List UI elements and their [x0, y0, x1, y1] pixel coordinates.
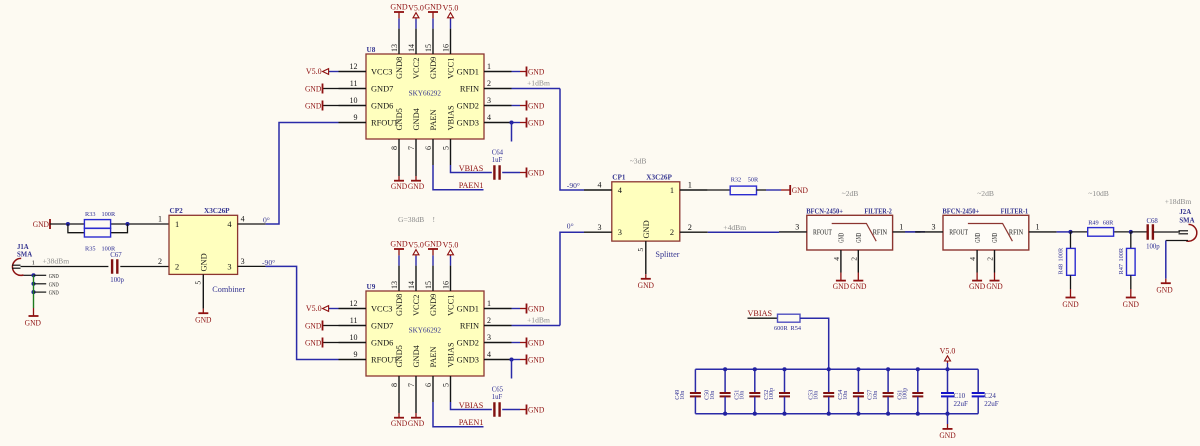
- power port GND at C64: [520, 172, 527, 174]
- capacitor C68: [1146, 224, 1148, 240]
- svg-text:~3dB: ~3dB: [630, 156, 647, 165]
- capacitor C49: [694, 369, 696, 392]
- resistor R33: [84, 220, 110, 229]
- wire CP2 pin4 to U8 RFOUT: [266, 123, 339, 225]
- wire FILTER-2 to FILTER-1: [905, 231, 925, 233]
- wire U8 RFIN route to CP1 pin4: [560, 89, 584, 191]
- wire R32 to GND: [757, 189, 767, 191]
- svg-text:GND: GND: [528, 67, 544, 76]
- svg-text:10: 10: [350, 96, 358, 105]
- svg-text:600R: 600R: [774, 325, 788, 332]
- capacitor C52: [784, 369, 786, 392]
- wire VBIAS to R54: [748, 317, 778, 319]
- junction C54 top rail: [856, 367, 860, 371]
- power port GND at pin4 of U9: [512, 359, 521, 361]
- svg-text:PAEN1: PAEN1: [459, 418, 484, 427]
- power port GND at pin7 of U8: [415, 165, 417, 176]
- svg-text:GND: GND: [305, 84, 321, 93]
- capacitor C50: [724, 369, 726, 392]
- connector J1A center pin lines: [12, 264, 21, 266]
- power port V5.0 at pin12 of U8: [329, 71, 339, 73]
- pin 2 of FILTER-1: [994, 250, 996, 273]
- svg-text:3: 3: [795, 223, 799, 232]
- svg-text:GND: GND: [528, 101, 544, 110]
- svg-text:CP2: CP2: [170, 207, 184, 215]
- svg-text:1: 1: [670, 186, 674, 195]
- pin 10 GND6 of U8: [339, 105, 367, 107]
- junction C61 bottom rail: [916, 412, 920, 416]
- power port V5.0 at pin12 of U9: [329, 308, 339, 310]
- capacitor C54: [857, 369, 859, 392]
- pin GND of J1A row2: [34, 283, 47, 285]
- svg-text:10n: 10n: [680, 391, 686, 400]
- svg-text:3: 3: [487, 96, 491, 105]
- pin 4 GND3 of U8: [484, 122, 512, 124]
- junction at pin4 of U9: [509, 357, 513, 361]
- filter FILTER-2 group: [779, 208, 920, 292]
- wire VBIAS from pin5 of U9: [451, 402, 492, 410]
- resistor R47 (shunt): [1130, 232, 1132, 249]
- pin 2 RFIN of U9: [484, 325, 512, 327]
- svg-text:8: 8: [390, 383, 399, 387]
- svg-text:GND: GND: [638, 281, 654, 290]
- power port GND below CP1: [645, 274, 647, 279]
- svg-text:GND: GND: [528, 405, 544, 414]
- svg-text:GND: GND: [1123, 300, 1139, 309]
- svg-text:R49: R49: [1088, 219, 1099, 226]
- svg-text:J1A: J1A: [17, 244, 29, 251]
- pin 5 VBIAS of U8: [450, 139, 452, 165]
- svg-text:12: 12: [350, 299, 358, 308]
- wire J1A signal output +38dBm: [21, 266, 109, 268]
- svg-text:GND: GND: [49, 273, 59, 280]
- capacitor C61: [917, 369, 919, 392]
- pin 15 GND9 of U9: [432, 266, 434, 291]
- connector J2A shield stub: [1166, 240, 1188, 242]
- connector J2A SMA arc: [1186, 224, 1197, 241]
- power port V5.0 at pin14 of U9: [415, 256, 417, 266]
- connector J1A shield stub: [24, 274, 34, 276]
- wire C65 to GND: [502, 409, 520, 411]
- svg-text:GND: GND: [792, 186, 808, 195]
- svg-text:GND: GND: [855, 233, 863, 243]
- wire R54 to capacitor bank: [800, 318, 829, 369]
- svg-text:1uF: 1uF: [492, 157, 503, 164]
- junction C53 bottom rail: [827, 412, 831, 416]
- pin 3 of FILTER-1: [915, 231, 943, 233]
- svg-text:3: 3: [618, 228, 622, 237]
- wire top rail of capacitor bank: [695, 368, 978, 370]
- pin 4 of FILTER-2: [840, 250, 842, 273]
- svg-text:GND: GND: [974, 233, 982, 243]
- wire GND bar to CP2 pin 1: [50, 223, 169, 225]
- wire RFIN of U8: [512, 88, 561, 90]
- resistor R35: [84, 228, 110, 237]
- junction left of R33: [66, 222, 70, 226]
- svg-text:100R: 100R: [1058, 247, 1065, 261]
- pin 8 GND5 of U9: [398, 376, 400, 402]
- svg-text:14: 14: [407, 44, 416, 52]
- wire C68 to J2A: [1154, 231, 1181, 233]
- pin 11 GND7 of U9: [339, 325, 367, 327]
- svg-text:100R: 100R: [1118, 247, 1125, 261]
- svg-text:2: 2: [487, 79, 491, 88]
- svg-text:VBIAS: VBIAS: [459, 401, 484, 410]
- junction C54 bottom rail: [856, 412, 860, 416]
- power port GND at pin13 of U8: [398, 18, 400, 28]
- pin 4 GND3 of U9: [484, 359, 512, 361]
- pin 14 VCC2 of U9: [415, 266, 417, 291]
- svg-text:GND5: GND5: [395, 345, 404, 367]
- wire PAEN1 from pin6 of U9: [433, 402, 484, 427]
- svg-text:4: 4: [968, 257, 977, 261]
- svg-text:R33: R33: [85, 211, 96, 218]
- svg-text:C68: C68: [1147, 218, 1159, 225]
- svg-text:GND: GND: [390, 3, 408, 12]
- svg-text:GND2: GND2: [457, 339, 479, 348]
- svg-text:R48: R48: [1058, 264, 1065, 275]
- svg-text:GND: GND: [390, 240, 408, 249]
- svg-text:10n: 10n: [873, 391, 879, 400]
- filter response curve of FILTER-1: [968, 224, 1013, 242]
- svg-text:GND: GND: [408, 419, 424, 428]
- svg-text:GND: GND: [305, 321, 321, 330]
- svg-text:VCC1: VCC1: [446, 58, 455, 79]
- wire CP1 pin2 to FILTER-2 (+4dBm): [708, 231, 779, 233]
- svg-text:7: 7: [407, 383, 416, 387]
- svg-text:GND: GND: [195, 316, 211, 325]
- svg-text:RFIN: RFIN: [460, 322, 479, 331]
- junction right of R33: [125, 222, 129, 226]
- svg-text:15: 15: [424, 44, 433, 52]
- svg-text:5: 5: [442, 383, 451, 387]
- svg-text:PAEN: PAEN: [429, 346, 438, 367]
- power port GND at pin4 of U8: [512, 122, 521, 124]
- svg-text:VCC2: VCC2: [412, 295, 421, 316]
- junction C52 bottom rail: [782, 412, 786, 416]
- svg-text:11: 11: [350, 79, 358, 88]
- pin 12 VCC3 of U8: [339, 71, 367, 73]
- svg-text:VCC3: VCC3: [371, 305, 392, 314]
- svg-text:GND: GND: [986, 282, 1002, 291]
- power port GND at pin2 of FILTER-2: [857, 273, 859, 281]
- svg-text:Combiner: Combiner: [212, 285, 245, 294]
- svg-text:GND: GND: [528, 118, 544, 127]
- svg-text:FILTER-2: FILTER-2: [864, 208, 892, 216]
- power port GND at pin1 of U9: [512, 308, 521, 310]
- capacitor C57: [887, 369, 889, 392]
- svg-text:SMA: SMA: [17, 252, 32, 259]
- resistor R49: [1088, 228, 1114, 237]
- svg-text:GND1: GND1: [457, 68, 479, 77]
- svg-text:GND: GND: [991, 233, 999, 243]
- power port V5.0 at pin14 of U8: [415, 19, 417, 29]
- svg-text:1: 1: [487, 62, 491, 71]
- power port GND at pin4 of FILTER-2: [840, 273, 842, 281]
- svg-text:+18dBm: +18dBm: [1165, 197, 1192, 206]
- junction C51 top rail: [753, 367, 757, 371]
- resistor R32 wire from CP1 pin1: [708, 189, 730, 191]
- svg-text:1: 1: [175, 220, 179, 229]
- wire J1A shield to ground (green): [33, 275, 35, 308]
- svg-text:J2A: J2A: [1179, 209, 1191, 216]
- pin 1 GND1 of U8: [484, 71, 512, 73]
- svg-text:GND: GND: [49, 290, 59, 297]
- power port GND below J2A: [1165, 279, 1167, 284]
- pin 5 of CP1: [645, 241, 647, 274]
- pin GND of J1A row1: [34, 274, 47, 276]
- svg-text:GND: GND: [33, 220, 49, 229]
- svg-text:GND: GND: [838, 233, 846, 243]
- svg-text:RFIN: RFIN: [873, 229, 888, 237]
- svg-text:16: 16: [442, 44, 451, 52]
- svg-text:R35: R35: [85, 245, 96, 252]
- pin 9 RFOUT of U9: [339, 359, 367, 361]
- svg-text:2: 2: [688, 223, 692, 232]
- svg-text:4: 4: [487, 350, 491, 359]
- power port GND at pin4 of FILTER-1: [976, 273, 978, 281]
- junction at pin4 of U8: [509, 120, 513, 124]
- svg-text:U9: U9: [367, 283, 376, 291]
- svg-text:GND6: GND6: [371, 339, 393, 348]
- pin 9 RFOUT of U8: [339, 122, 367, 124]
- svg-text:GND: GND: [939, 431, 955, 440]
- power port GND at pin15 of U8: [432, 18, 434, 28]
- svg-text:4: 4: [241, 214, 245, 223]
- wire R35 to right junction: [111, 224, 128, 233]
- pin 3 GND2 of U8: [484, 105, 512, 107]
- pin 6 PAEN of U8: [432, 139, 434, 165]
- svg-text:10: 10: [350, 333, 358, 342]
- svg-text:GND: GND: [528, 168, 544, 177]
- power port GND at R32: [781, 189, 790, 191]
- svg-text:PAEN: PAEN: [429, 109, 438, 130]
- power port GND at R48: [1070, 289, 1072, 298]
- svg-text:2: 2: [158, 257, 162, 266]
- wire R47 to GND: [1130, 275, 1132, 289]
- junction C53 top rail: [827, 367, 831, 371]
- svg-text:GND8: GND8: [395, 57, 404, 79]
- svg-text:1uF: 1uF: [492, 394, 503, 401]
- svg-text:5: 5: [194, 281, 203, 285]
- svg-text:BFCN-2450+: BFCN-2450+: [806, 208, 843, 216]
- svg-text:1: 1: [158, 214, 162, 223]
- junction C61 top rail: [916, 367, 920, 371]
- power port GND at pin13 of U9: [398, 255, 400, 265]
- wire R48 to GND: [1070, 275, 1072, 289]
- power port GND at pin15 of U9: [432, 255, 434, 265]
- capacitor C53: [828, 369, 830, 392]
- junction C52 top rail: [782, 367, 786, 371]
- power port GND at R47: [1130, 289, 1132, 298]
- junction C10 bottom rail: [945, 412, 949, 416]
- svg-text:5: 5: [636, 248, 645, 252]
- svg-text:VBIAS: VBIAS: [459, 164, 484, 173]
- pin 16 VCC1 of U9: [450, 266, 452, 291]
- svg-text:G=38dB: G=38dB: [398, 215, 424, 224]
- pin 2 RFIN of U8: [484, 88, 512, 90]
- junction C50 bottom rail: [723, 412, 727, 416]
- svg-text:14: 14: [407, 281, 416, 289]
- svg-text:VCC2: VCC2: [412, 58, 421, 79]
- wire stub below pin4 of U8: [511, 123, 513, 142]
- svg-text:GND: GND: [408, 182, 424, 191]
- svg-text:V5.0: V5.0: [940, 347, 956, 356]
- svg-text:GND: GND: [305, 338, 321, 347]
- svg-text:GND9: GND9: [429, 294, 438, 316]
- svg-text:2: 2: [487, 316, 491, 325]
- svg-text:R54: R54: [791, 325, 802, 332]
- svg-text:V5.0: V5.0: [408, 3, 424, 12]
- svg-text:C65: C65: [492, 386, 504, 393]
- svg-text:GND: GND: [528, 355, 544, 364]
- svg-text:22uF: 22uF: [954, 400, 969, 408]
- svg-text:GND: GND: [424, 3, 442, 12]
- svg-text:+4dBm: +4dBm: [723, 223, 746, 232]
- pin 1 of CP1: [680, 189, 708, 191]
- wire across attenuator: [1071, 231, 1131, 233]
- junction C50 top rail: [723, 367, 727, 371]
- svg-text:GND7: GND7: [371, 322, 393, 331]
- svg-text:GND9: GND9: [429, 57, 438, 79]
- pin 15 GND9 of U8: [432, 29, 434, 54]
- svg-text:VBIAS: VBIAS: [446, 105, 455, 130]
- wire C64 to GND: [502, 172, 520, 174]
- junction C10 top rail: [945, 367, 949, 371]
- pin 3 of FILTER-2: [779, 231, 807, 233]
- svg-text:GND: GND: [850, 282, 866, 291]
- svg-text:GND: GND: [424, 240, 442, 249]
- svg-text:FILTER-1: FILTER-1: [1001, 208, 1029, 216]
- svg-text:5: 5: [442, 146, 451, 150]
- junction C51 bottom rail: [753, 412, 757, 416]
- svg-text:GND: GND: [528, 338, 544, 347]
- svg-text:GND3: GND3: [457, 119, 479, 128]
- svg-text:C64: C64: [492, 149, 504, 156]
- pin 12 VCC3 of U9: [339, 308, 367, 310]
- pin 1 of FILTER-1: [1029, 231, 1057, 233]
- wire C67 to CP2 pin 2: [120, 266, 169, 268]
- svg-text:10n: 10n: [813, 391, 819, 400]
- svg-text:VCC3: VCC3: [371, 68, 392, 77]
- wire RFIN of U9: [512, 325, 561, 327]
- svg-text:GND1: GND1: [457, 305, 479, 314]
- power port GND at C65: [520, 409, 527, 411]
- svg-text:X3C26P: X3C26P: [646, 174, 672, 182]
- svg-text:11: 11: [350, 316, 358, 325]
- junction at R47: [1129, 230, 1133, 234]
- pin 14 VCC2 of U8: [415, 29, 417, 54]
- svg-text:X3C26P: X3C26P: [204, 207, 230, 215]
- wire CP2 pin3 to U9 RFOUT: [266, 266, 339, 359]
- svg-text:3: 3: [241, 257, 245, 266]
- svg-text:GND: GND: [642, 220, 651, 238]
- pin 10 GND6 of U9: [339, 342, 367, 344]
- power port GND at pin11 of U8: [323, 88, 339, 90]
- svg-text:2: 2: [670, 228, 674, 237]
- svg-text:100p: 100p: [1146, 244, 1160, 251]
- svg-text:BFCN-2450+: BFCN-2450+: [942, 208, 979, 216]
- pin 2 of FILTER-2: [857, 250, 859, 273]
- svg-text:~2dB: ~2dB: [842, 189, 859, 198]
- svg-text:1: 1: [688, 181, 692, 190]
- svg-text:SKY66292: SKY66292: [409, 326, 441, 335]
- svg-text:10n: 10n: [740, 391, 746, 400]
- svg-text:GND3: GND3: [457, 356, 479, 365]
- svg-text:GND: GND: [305, 101, 321, 110]
- svg-text:SMA: SMA: [1179, 218, 1194, 225]
- power port V5.0 above C10: [947, 363, 949, 369]
- svg-text:GND: GND: [1156, 286, 1172, 295]
- filter FILTER-1 group: [915, 208, 1056, 292]
- svg-text:RFOUT: RFOUT: [949, 229, 968, 237]
- svg-text:GND: GND: [1062, 300, 1078, 309]
- capacitor C67: [111, 259, 113, 274]
- svg-text:GND7: GND7: [371, 85, 393, 94]
- svg-text:9: 9: [354, 350, 358, 359]
- svg-text:GND4: GND4: [412, 344, 421, 367]
- svg-text:4: 4: [832, 257, 841, 261]
- power port GND at pin8 of U9: [398, 402, 400, 413]
- svg-text:GND2: GND2: [457, 102, 479, 111]
- svg-text:7: 7: [407, 146, 416, 150]
- svg-text:R47: R47: [1118, 264, 1125, 275]
- wire stub below pin4 of U9: [511, 360, 513, 379]
- svg-text:0°: 0°: [263, 215, 270, 224]
- svg-text:4: 4: [598, 181, 602, 190]
- svg-text:PAEN1: PAEN1: [459, 181, 484, 190]
- op-amp U9 SKY66292 body: [366, 291, 484, 376]
- svg-text:GND: GND: [528, 304, 544, 313]
- power port GND at pin11 of U9: [323, 325, 339, 327]
- pin 16 VCC1 of U8: [450, 29, 452, 54]
- svg-text:RFIN: RFIN: [1009, 229, 1024, 237]
- svg-text:10n: 10n: [843, 391, 849, 400]
- svg-text:15: 15: [424, 281, 433, 289]
- svg-text:C67: C67: [110, 252, 122, 259]
- svg-text:GND: GND: [199, 253, 208, 271]
- filter response curve of FILTER-2: [832, 224, 877, 242]
- svg-text:8: 8: [390, 146, 399, 150]
- pin 7 GND4 of U8: [415, 139, 417, 165]
- svg-text:U8: U8: [367, 46, 376, 54]
- connector J1A SMA arc: [12, 258, 23, 275]
- power port GND at pin3 of U9: [512, 342, 521, 344]
- amplifier U9 group: [305, 240, 560, 429]
- svg-text:GND: GND: [391, 419, 407, 428]
- svg-text:2: 2: [986, 257, 995, 261]
- combiner CP2 body: [169, 215, 238, 274]
- svg-text:3: 3: [598, 223, 602, 232]
- amplifier U8 group: [305, 3, 560, 192]
- wire VBIAS from pin5 of U8: [451, 165, 492, 173]
- svg-text:GND: GND: [49, 281, 59, 288]
- svg-text:3: 3: [227, 262, 231, 271]
- capacitor C24: [972, 392, 985, 394]
- svg-text:V5.0: V5.0: [306, 67, 322, 76]
- resistor R54: [778, 314, 801, 322]
- capacitor C65: [493, 402, 495, 417]
- svg-text:GND: GND: [391, 182, 407, 191]
- svg-text:100p: 100p: [110, 277, 124, 284]
- svg-text:VBIAS: VBIAS: [446, 342, 455, 367]
- svg-text:100p: 100p: [903, 388, 909, 400]
- power port V5.0 at pin16 of U9: [450, 256, 452, 266]
- svg-text:GND6: GND6: [371, 102, 393, 111]
- svg-text:68R: 68R: [1103, 219, 1114, 226]
- pin GND of J1A row3: [34, 291, 47, 293]
- pin 4 of CP1: [584, 189, 612, 191]
